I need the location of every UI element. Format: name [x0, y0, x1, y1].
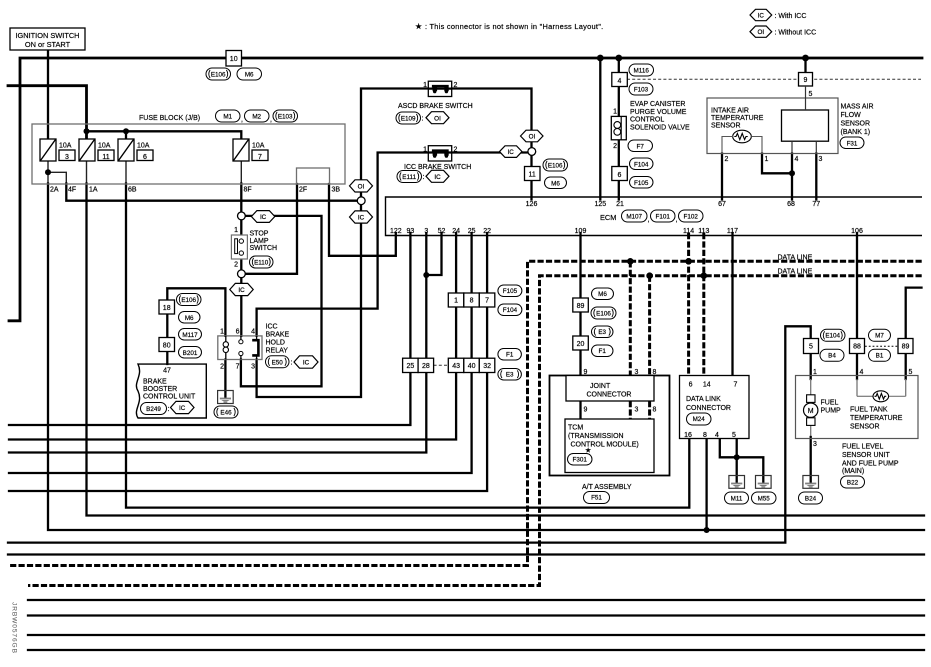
wire: ECM pin 117 to DLC pin 7	[731, 233, 733, 376]
svg-text:16: 16	[684, 432, 692, 439]
wire: ECM pin 125 drop	[599, 58, 601, 200]
node: bus to ECM 125	[597, 55, 604, 62]
svg-text:,: ,	[270, 117, 272, 124]
wire: temp sensor pin5 lead inside box	[889, 395, 906, 397]
svg-text:★: ★	[585, 447, 591, 455]
svg-text:2: 2	[454, 82, 458, 89]
svg-text:,: ,	[241, 117, 243, 124]
svg-text:CONTROL: CONTROL	[630, 117, 664, 124]
svg-text:47: 47	[163, 368, 171, 375]
svg-text:89: 89	[902, 344, 910, 351]
svg-text:5: 5	[909, 369, 913, 376]
svg-text:117: 117	[727, 228, 738, 235]
svg-text:E103: E103	[278, 114, 293, 121]
svg-text:FUSE BLOCK (J/B): FUSE BLOCK (J/B)	[139, 115, 200, 122]
svg-text:1: 1	[423, 147, 427, 154]
wire: 6B from fuse 6 to data link connector pin 16	[125, 161, 127, 184]
oval E106 (11 box) double	[543, 159, 568, 171]
svg-text:93: 93	[407, 228, 415, 235]
connector 18 box (brake booster chain)	[159, 300, 175, 314]
node: bus to MAF	[802, 55, 809, 62]
svg-text:CONNECTOR: CONNECTOR	[587, 392, 632, 399]
MAF element pin leads	[792, 86, 816, 154]
hexagon IC (B249 label)	[171, 401, 195, 413]
dashed wire: ECM 113 to DLC 14	[702, 233, 705, 376]
svg-text:2: 2	[220, 364, 224, 371]
oval M55	[752, 492, 777, 504]
svg-text:7: 7	[236, 364, 240, 371]
node: data line1 / ECM 114	[685, 258, 692, 265]
svg-text:CONTROL UNIT: CONTROL UNIT	[143, 394, 196, 401]
fuse number box 7	[252, 150, 268, 161]
connector 20 box	[573, 336, 589, 350]
svg-text:IC: IC	[179, 405, 186, 412]
svg-text:E106: E106	[596, 311, 611, 318]
svg-text:11: 11	[529, 172, 536, 179]
hexagon IC on ICC right wire	[500, 146, 523, 158]
svg-text:,: ,	[676, 217, 678, 224]
svg-text:E111: E111	[402, 174, 416, 181]
connector 89 box (fuel temp)	[898, 339, 913, 354]
wire: pin 3 chain	[425, 233, 427, 358]
svg-text:DATA LINE: DATA LINE	[778, 254, 813, 261]
EVAP 4 box	[612, 73, 628, 87]
wire: brake booster pin47 chain up to relay pin1	[167, 288, 225, 364]
EVAP purge volume control solenoid valve body F7	[611, 116, 626, 139]
wire: 2A from fuse 3 down and across page	[47, 161, 49, 184]
wire: stop lamp sw pin2 to lower node, to ICC brake hold relay pin 6	[240, 255, 242, 336]
connector row 25-28	[403, 358, 434, 372]
svg-text:9: 9	[804, 77, 808, 84]
ignition switch box	[10, 28, 85, 50]
svg-text:BOOSTER: BOOSTER	[143, 386, 177, 393]
svg-text:E3: E3	[506, 372, 514, 379]
svg-text:1A: 1A	[89, 187, 98, 194]
node: bus to EVAP	[615, 55, 622, 62]
svg-text:LAMP: LAMP	[250, 238, 269, 245]
svg-text:F104: F104	[503, 307, 518, 314]
svg-text:8: 8	[703, 432, 707, 439]
svg-text:8: 8	[470, 298, 474, 305]
svg-text:(TRANSMISSION: (TRANSMISSION	[568, 433, 624, 440]
svg-text:6: 6	[143, 154, 147, 161]
oval M6 (11 box)	[545, 177, 567, 189]
svg-text:F7: F7	[637, 143, 645, 150]
svg-text:25: 25	[407, 363, 415, 370]
svg-text:1: 1	[813, 369, 817, 376]
wire: long bus y600	[28, 599, 924, 601]
wire: pin 24 chain	[455, 233, 457, 358]
oval F1 (20 box)	[592, 345, 614, 357]
svg-text:2: 2	[234, 262, 238, 269]
hexagon OI on ASCD right chain	[521, 130, 544, 142]
svg-text:M6: M6	[245, 72, 254, 79]
svg-text:SENSOR: SENSOR	[711, 123, 741, 130]
svg-text:FLOW: FLOW	[841, 112, 862, 119]
wire: lower node to 2F	[245, 184, 297, 274]
wire: pin 93 chain lower elbow to left edge	[9, 373, 410, 426]
oval E106 (89 box) double	[591, 307, 616, 319]
svg-text:IC: IC	[434, 174, 441, 181]
junction circle ICC/ASCD chains	[528, 148, 536, 156]
svg-text:5: 5	[809, 344, 813, 351]
oval F1 (row2)	[498, 349, 522, 361]
svg-text:32: 32	[483, 363, 491, 370]
svg-text:E104: E104	[825, 332, 840, 339]
svg-text:E50: E50	[272, 359, 284, 366]
svg-text:10A: 10A	[59, 143, 72, 150]
dashed wire: ECM 114 to DLC 6	[687, 233, 690, 376]
junction circle stop lamp bottom	[238, 270, 246, 278]
wire: ECM 122 elbow handled above; pin 93 chain down	[409, 233, 411, 358]
svg-text:E106: E106	[548, 163, 563, 170]
svg-text:77: 77	[812, 201, 820, 208]
wire: ASCD switch right to ECM pin 126 chain	[452, 89, 532, 200]
svg-text::: :	[291, 360, 293, 367]
svg-text:MASS AIR: MASS AIR	[841, 104, 874, 111]
wire: second bus feeding fuse block	[8, 86, 87, 139]
ground B24	[803, 476, 819, 489]
oval E46 (double)	[214, 406, 238, 418]
svg-text:11: 11	[102, 154, 109, 161]
oval F31	[840, 137, 864, 149]
oval M2	[245, 110, 270, 122]
oval E106 (18 box) double	[177, 294, 202, 306]
svg-text:B249: B249	[146, 406, 161, 413]
svg-text:52: 52	[438, 228, 446, 235]
svg-text:3B: 3B	[332, 187, 341, 194]
MAF inner element box	[782, 110, 829, 141]
svg-text::: :	[422, 116, 424, 123]
node: pin52 joins pin3	[423, 272, 429, 278]
oval E103 (double)	[273, 110, 298, 122]
fuse block 2F/3B sub-box	[297, 168, 330, 184]
hexagon IC (relay E50 label)	[294, 356, 318, 368]
MAF 9 box	[799, 73, 813, 87]
svg-text:RELAY: RELAY	[266, 348, 289, 355]
wire: 1A from fuse 11 across page	[86, 161, 88, 184]
svg-text:M6: M6	[185, 315, 194, 322]
svg-text:SOLENOID VALVE: SOLENOID VALVE	[630, 124, 690, 131]
svg-text:: With ICC: : With ICC	[775, 13, 807, 20]
oval E104 (double)	[821, 329, 846, 341]
svg-text:IC: IC	[260, 214, 267, 221]
wire: long bus y554	[8, 553, 924, 555]
ground M55	[756, 476, 772, 489]
svg-text:1: 1	[423, 82, 427, 89]
svg-text:4: 4	[715, 432, 719, 439]
svg-text:10A: 10A	[98, 143, 111, 150]
svg-text:TEMPERATURE: TEMPERATURE	[711, 115, 764, 122]
fuse number box 6	[137, 150, 153, 161]
node: fuse 3 bottom branch	[45, 169, 51, 175]
wire: ICC switch right to junction circle	[452, 151, 528, 153]
fuse 10A #6	[118, 139, 134, 161]
svg-text:1: 1	[765, 156, 769, 163]
svg-text:IC: IC	[508, 149, 515, 156]
svg-text:6: 6	[689, 382, 693, 389]
svg-text:2: 2	[613, 143, 617, 150]
node: bus2 to fuse 11	[84, 128, 90, 134]
EVAP 6 box	[612, 167, 628, 181]
wire: long bus y650	[28, 649, 924, 651]
oval F7	[628, 140, 653, 152]
wire: MAF pin4 to ECM 68	[791, 154, 793, 200]
fuse 10A #3	[40, 139, 56, 161]
svg-text:3: 3	[635, 369, 639, 376]
node: data line1 / joint conn 3	[627, 258, 634, 265]
wire: fuse-top link inside fuse block	[87, 131, 242, 139]
fuse number box 11	[98, 150, 114, 161]
hexagon IC right of stop lamp top node	[251, 211, 274, 223]
svg-text:OI: OI	[529, 134, 536, 141]
svg-text:3: 3	[65, 154, 69, 161]
svg-text:BRAKE: BRAKE	[143, 379, 167, 386]
oval F103	[629, 83, 653, 95]
svg-text:M2: M2	[252, 114, 261, 121]
svg-text:DATA LINE: DATA LINE	[778, 269, 813, 276]
svg-text:B22: B22	[847, 480, 859, 487]
svg-text:8: 8	[653, 369, 657, 376]
wire: ECM pin 106 to fuel tank temp sensor pin 4	[856, 233, 858, 379]
svg-text:A/T ASSEMBLY: A/T ASSEMBLY	[582, 484, 632, 491]
svg-text:PURGE VOLUME: PURGE VOLUME	[630, 109, 687, 116]
oval B249	[141, 403, 167, 415]
dashed link between connector boxes 28 and 43	[434, 364, 449, 366]
wire: pin 25 chain	[470, 233, 472, 358]
svg-text:M7: M7	[875, 332, 884, 339]
wire: ASCD chain vertical / down to relay pin3 link	[257, 89, 428, 398]
connector row 43-40-32	[448, 358, 495, 372]
wire: pin 22 chain	[486, 233, 488, 358]
wire: stop lamp sw pin1 node to relay pin7 riser	[241, 216, 322, 386]
oval B201	[179, 347, 202, 359]
svg-text:122: 122	[390, 228, 402, 235]
svg-text:5: 5	[809, 91, 813, 98]
oval E3 (row2) double	[498, 369, 522, 381]
svg-text:STOP: STOP	[250, 231, 269, 238]
wire: fuel temp sensor stub feed, 89 connector	[906, 288, 922, 379]
svg-text:FUEL LEVEL: FUEL LEVEL	[842, 444, 883, 451]
svg-text:M11: M11	[731, 496, 743, 503]
svg-text:10: 10	[230, 56, 238, 63]
brake booster control unit box B249	[136, 364, 206, 418]
svg-text:F1: F1	[506, 352, 514, 359]
svg-text:ASCD BRAKE SWITCH: ASCD BRAKE SWITCH	[398, 103, 473, 110]
oval F104 (EVAP)	[630, 158, 654, 170]
wire: MAF pin1 jog to 68	[762, 154, 792, 174]
dashed wire: data line 1 to joint connector pin 3 / TCM 3	[629, 261, 632, 375]
svg-text:OI: OI	[358, 183, 365, 190]
ground M11	[729, 476, 745, 489]
svg-text:67: 67	[718, 201, 726, 208]
connector row 1-8-7	[448, 293, 495, 307]
hexagon IC below stop lamp node	[230, 283, 253, 295]
svg-text:ON or START: ON or START	[25, 40, 71, 49]
wire: pin 3 chain lower elbow	[9, 373, 426, 453]
svg-text:4: 4	[251, 329, 255, 336]
svg-text:TEMPERATURE: TEMPERATURE	[850, 415, 903, 422]
svg-text:4: 4	[795, 156, 799, 163]
svg-text:CONTROL MODULE): CONTROL MODULE)	[571, 442, 639, 449]
wire: ICC brake switch left feed to relay pin 4	[257, 153, 428, 336]
oval E110 (double)	[250, 256, 274, 268]
oval M107	[622, 210, 648, 222]
hexagon IC on 4F chain lower	[350, 211, 373, 223]
oval M11	[725, 492, 749, 504]
svg-text:1: 1	[220, 329, 224, 336]
svg-text:3: 3	[424, 228, 428, 235]
svg-text:OI: OI	[434, 115, 441, 122]
ICC brake hold relay box E50	[218, 336, 262, 360]
wire: temp sensor pin4 lead inside box	[856, 379, 858, 396]
svg-text:F104: F104	[634, 162, 649, 169]
oval E106 (top, double ring)	[206, 68, 231, 80]
svg-text:F31: F31	[847, 140, 858, 147]
svg-text:SENSOR: SENSOR	[850, 424, 880, 431]
svg-text:43: 43	[452, 363, 460, 370]
svg-text:F103: F103	[634, 87, 649, 94]
svg-text:F1: F1	[599, 348, 607, 355]
wire: 3B down then right to ECM pin 122	[329, 184, 396, 256]
svg-text:E106: E106	[211, 72, 226, 79]
oval F104 (187 row)	[498, 304, 522, 316]
svg-text:JOINT: JOINT	[590, 383, 611, 390]
svg-text:JRBW0576GB: JRBW0576GB	[11, 602, 18, 654]
data line 1 (dashed)	[8, 261, 922, 565]
fuel tank temperature sensor thermistor	[873, 391, 889, 402]
svg-text:18: 18	[163, 305, 171, 312]
hexagon IC legend	[750, 9, 772, 20]
svg-text:IC: IC	[238, 287, 245, 294]
svg-text:(MAIN): (MAIN)	[842, 468, 864, 475]
svg-text:E46: E46	[220, 410, 232, 417]
svg-text:ICC BRAKE SWITCH: ICC BRAKE SWITCH	[404, 164, 471, 171]
svg-text:3: 3	[813, 441, 817, 448]
svg-text:IC: IC	[758, 12, 765, 19]
oval M6 (18 box)	[179, 312, 201, 324]
svg-text:3: 3	[251, 364, 255, 371]
svg-text:10A: 10A	[252, 143, 265, 150]
dashed wire: data line 2 to joint connector pin 8 / TCM 8	[648, 276, 651, 376]
hexagon IC (ICC label)	[426, 170, 449, 182]
svg-text:9: 9	[584, 369, 588, 376]
svg-text:F105: F105	[634, 180, 649, 187]
svg-text:2: 2	[454, 147, 458, 154]
svg-text:3: 3	[819, 156, 823, 163]
wire: main IGN bus (top thick horizontal)	[9, 58, 922, 321]
fuse 10A #7	[233, 139, 249, 161]
oval M24	[687, 413, 712, 425]
svg-text:FUEL: FUEL	[821, 400, 839, 407]
stop lamp switch body E110	[231, 235, 247, 259]
oval F101	[651, 210, 676, 222]
svg-text:8: 8	[653, 407, 657, 414]
svg-text:106: 106	[851, 228, 863, 235]
svg-text:113: 113	[698, 228, 709, 235]
wire: DLC pins 4/5 to grounds M11 M55	[720, 439, 737, 458]
wire: pin 52 jog joining pin 3 wire	[426, 233, 441, 275]
oval M7	[869, 329, 891, 341]
connector box 10 on bus	[226, 51, 242, 67]
svg-text:3: 3	[635, 407, 639, 414]
svg-text:125: 125	[594, 201, 606, 208]
svg-text:HOLD: HOLD	[266, 340, 285, 347]
svg-text:40: 40	[468, 363, 476, 370]
svg-text:21: 21	[616, 201, 624, 208]
svg-text:,: ,	[648, 217, 650, 224]
connector 80 box	[159, 338, 175, 352]
data link connector box M24	[680, 376, 750, 439]
svg-text:INTAKE AIR: INTAKE AIR	[711, 108, 749, 115]
hexagon OI on 4F chain	[350, 180, 373, 192]
svg-text:ECM: ECM	[600, 213, 616, 222]
intake air temperature sensor thermistor	[722, 130, 762, 153]
svg-text:6: 6	[236, 329, 240, 336]
oval M1	[216, 110, 241, 122]
oval F105 (187 row)	[498, 285, 522, 297]
oval F102	[679, 210, 704, 222]
svg-text:E109: E109	[401, 116, 416, 123]
svg-text:(BANK 1): (BANK 1)	[841, 129, 871, 136]
wire: EVAP solenoid chain (ECM pin 21)	[618, 58, 620, 200]
hexagon OI (ASCD label)	[426, 112, 449, 124]
svg-text:80: 80	[163, 342, 171, 349]
svg-text:M107: M107	[626, 214, 642, 221]
svg-text:E106: E106	[181, 297, 196, 304]
wire: pin 24 chain lower elbow	[9, 373, 456, 440]
svg-text:E3: E3	[598, 329, 606, 336]
node: DLC pin8 joins 2A bus	[704, 527, 710, 533]
svg-text:SENSOR: SENSOR	[841, 121, 871, 128]
wire: MAF pin2 to ECM 67	[721, 154, 723, 200]
svg-text:4F: 4F	[68, 187, 76, 194]
svg-text::: :	[168, 406, 170, 413]
wire: relay pin2 to ground E46	[224, 360, 226, 398]
connector 89 box (ECM 109 chain)	[573, 298, 589, 312]
svg-text:6B: 6B	[128, 187, 137, 194]
svg-text:24: 24	[452, 228, 460, 235]
svg-text:7: 7	[485, 298, 489, 305]
oval B4	[820, 349, 844, 361]
svg-text:E110: E110	[254, 260, 269, 267]
oval M116	[629, 64, 654, 76]
svg-text:10A: 10A	[137, 143, 150, 150]
svg-text:TCM: TCM	[568, 425, 583, 432]
TCM box F301	[565, 419, 654, 473]
ICC brake switch body E111	[428, 146, 451, 161]
svg-text:M55: M55	[758, 496, 771, 503]
svg-text:M6: M6	[598, 291, 607, 298]
fuse number box 3	[59, 150, 75, 161]
svg-text:M117: M117	[182, 332, 198, 339]
svg-text:IC: IC	[303, 360, 310, 367]
svg-text:PUMP: PUMP	[821, 408, 842, 415]
svg-text:1: 1	[613, 109, 617, 116]
svg-text:9: 9	[584, 407, 588, 414]
connector 88 box	[850, 339, 865, 354]
svg-text:★ : This connector is not show: ★ : This connector is not shown in "Harn…	[415, 22, 603, 31]
oval M6 (89 box)	[592, 288, 614, 300]
svg-text:8F: 8F	[244, 187, 252, 194]
svg-text:1: 1	[454, 298, 458, 305]
connector 11 box (ECM 126 chain)	[525, 167, 541, 181]
fuel pump motor	[804, 395, 818, 426]
wire: ignition switch feed down to fuse 3	[47, 50, 49, 139]
svg-text:F51: F51	[591, 495, 602, 502]
wire: pin 22 chain lower elbow	[9, 373, 487, 492]
joint connector box	[566, 376, 654, 402]
